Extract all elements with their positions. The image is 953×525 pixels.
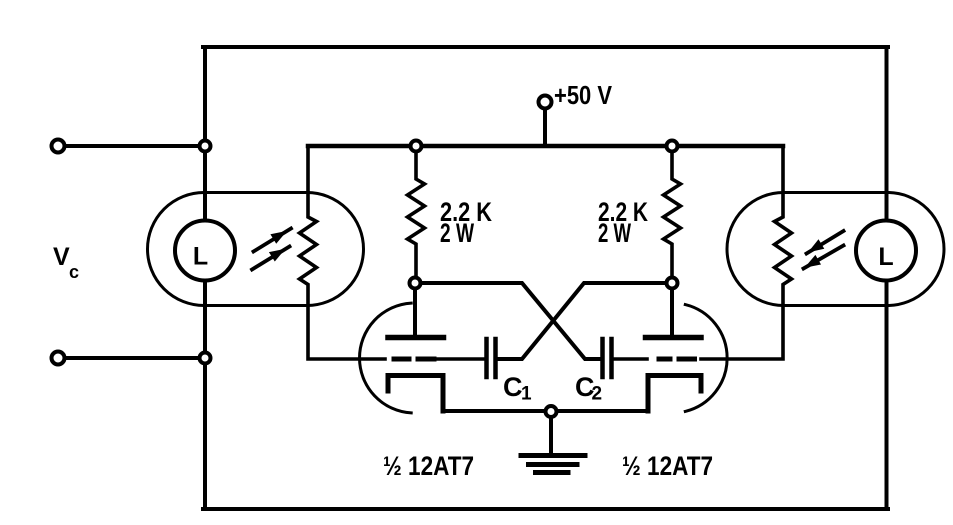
arrowhead (right lower) <box>805 255 822 268</box>
resistor R2 2.2K 2W (right) <box>664 152 681 277</box>
node: lower Vc junction <box>200 353 211 364</box>
V2 plate lead <box>670 288 674 335</box>
svg-text:+50 V: +50 V <box>554 80 613 110</box>
node: R2 / V2 plate <box>667 278 678 289</box>
node: rail / R2 <box>667 141 678 152</box>
lamp L (right) <box>856 221 916 281</box>
wire: outer loop top side <box>203 45 888 49</box>
svg-text:c: c <box>69 262 79 282</box>
label R2 value 2.2 K / 2 W <box>598 197 648 248</box>
triode V2 envelope <box>685 305 727 412</box>
wire: +50V terminal drop to rail <box>543 109 547 144</box>
wire: cathode node to ground <box>549 416 553 454</box>
optocoupler enclosure (right) <box>727 193 944 306</box>
light arrow (left lower) <box>252 247 290 270</box>
wire: outer loop left side (Vc bus) <box>203 47 207 509</box>
light arrow (right upper) <box>807 231 844 254</box>
terminal: Vc upper input <box>52 140 65 153</box>
wire: common cathode bus <box>443 409 648 413</box>
triode V1 envelope <box>360 303 412 413</box>
wire: V2 plate node to C1 (cross-coupling) <box>497 283 672 359</box>
V1 cathode <box>388 376 443 412</box>
wire: +50V rail <box>308 144 783 149</box>
node: cathode / ground <box>546 406 557 417</box>
label R1 value 2.2 K / 2 W <box>440 197 492 248</box>
svg-text:2: 2 <box>592 384 603 405</box>
svg-text:2 W: 2 W <box>598 218 631 248</box>
arrowhead (left lower) <box>269 249 286 262</box>
terminal: +50V supply <box>539 96 552 109</box>
arrowhead (left upper) <box>270 231 287 244</box>
capacitor C2 <box>603 339 612 377</box>
V2 grid (dashed) <box>659 357 695 362</box>
label C1 <box>503 372 532 405</box>
wire: outer loop right side <box>885 47 889 509</box>
photoresistor (left) with leads to +50V rail and V1 grid <box>300 146 386 359</box>
svg-text:1: 1 <box>521 384 532 405</box>
label C2 <box>575 372 602 405</box>
svg-text:L: L <box>878 243 893 271</box>
node: R1 / V1 plate <box>410 278 421 289</box>
svg-text:L: L <box>193 243 208 271</box>
node: rail / R1 <box>411 141 422 152</box>
wire: lower terminal to node <box>65 356 199 360</box>
optocoupler enclosure (left) <box>148 193 364 306</box>
wire: C2 to V2 grid <box>614 357 647 361</box>
svg-text:½ 12AT7: ½ 12AT7 <box>622 451 713 481</box>
wire: C1 to V1 grid <box>438 357 484 361</box>
lamp L (left) <box>175 221 235 281</box>
wire: outer loop bottom side <box>203 507 888 511</box>
label Vc <box>53 243 79 282</box>
wire: upper terminal to node <box>65 144 199 148</box>
resistor R1 2.2K 2W (left) <box>408 152 425 277</box>
svg-text:½ 12AT7: ½ 12AT7 <box>383 451 474 481</box>
V1 grid (dashed) <box>394 357 434 362</box>
V1 plate lead <box>413 288 417 335</box>
capacitor C1 <box>487 339 496 377</box>
terminal: Vc lower input <box>52 352 65 365</box>
node: upper Vc junction <box>200 141 211 152</box>
V2 cathode <box>648 376 701 412</box>
light arrow (left upper) <box>254 229 292 252</box>
svg-text:C: C <box>503 372 523 402</box>
wire: V1 plate node to C2 (cross-coupling) <box>415 283 601 359</box>
ground symbol <box>521 456 585 473</box>
svg-text:2 W: 2 W <box>440 218 474 248</box>
arrowhead (right upper) <box>808 239 824 252</box>
light arrow (right lower) <box>804 246 844 269</box>
V1 plate bar <box>388 335 444 341</box>
V2 plate bar <box>646 335 702 341</box>
photoresistor (right) with leads to +50V rail and V2 grid <box>701 146 792 359</box>
svg-text:V: V <box>53 243 70 271</box>
